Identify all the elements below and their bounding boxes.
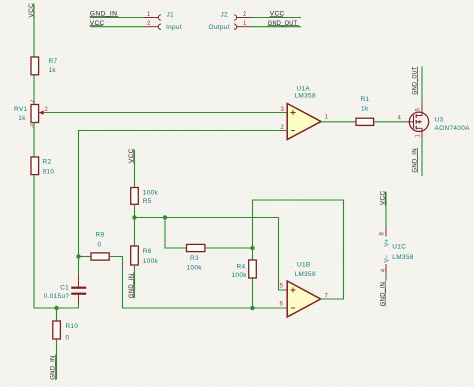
resistor R9 [91,232,109,261]
svg-text:J1: J1 [167,12,175,19]
junction R3/R4 node [250,246,254,250]
svg-text:R6: R6 [143,248,152,255]
wire U3 source down [421,138,423,176]
svg-text:RV1: RV1 [14,106,28,113]
net label VCC (R5 top) [128,148,135,163]
pin 4 stub [385,264,387,274]
svg-text:LM358: LM358 [295,271,316,278]
op-amp U1B [280,262,329,318]
svg-text:910: 910 [43,169,55,176]
svg-text:Input: Input [166,24,182,31]
svg-text:C1: C1 [60,285,69,292]
gate bar [413,115,415,129]
svg-text:1k: 1k [361,106,369,113]
wire J2 pin2 VCC [251,17,301,19]
power unit U1C [379,191,413,307]
resistor R4 [232,260,257,279]
pin 2 arc [158,24,161,29]
mosfet U3 AON7400A [406,106,470,139]
wire junction to U1B pin5 path [135,218,288,291]
resistor R3 [187,244,205,271]
pin 1 stub [237,26,251,28]
wire R2 down left rail to bottom [34,175,79,308]
wire J1 pin1 [90,17,144,19]
net label GND_IN (R6 bottom) [128,273,135,299]
svg-text:LM358: LM358 [392,254,413,261]
pin 1 arc [234,24,237,29]
junction R5/R6 node [132,215,136,219]
resistor R2 [31,157,54,176]
net label GND_IN (below R10) [50,355,57,381]
wire VCC rail top to R7 [33,4,35,58]
svg-text:R9: R9 [96,232,105,239]
connector J2 [209,11,302,32]
wire J1 pin2 [90,26,144,28]
svg-text:Output: Output [209,24,230,31]
wire VCC to R5 [134,150,136,188]
wire VCC to pin8 [385,192,387,228]
svg-text:U1C: U1C [392,244,406,251]
svg-text:100k: 100k [232,272,248,279]
resistor R7 [31,57,57,75]
wire U3 drain up [421,67,423,106]
svg-text:R5: R5 [143,198,152,205]
svg-text:R3: R3 [190,255,199,262]
svg-text:1k: 1k [18,115,26,122]
svg-text:100k: 100k [143,258,159,265]
svg-text:R7: R7 [49,58,58,65]
wire node to R9 [79,256,92,258]
wire RV1 wiper to U1A pin3 [44,112,288,114]
pin 2 arc [234,15,237,20]
resistor R10 [53,308,79,380]
op-amp U1A [281,86,329,140]
wire pin4 down [385,274,387,281]
svg-text:J2: J2 [221,12,229,19]
svg-text:R1: R1 [361,96,370,103]
connector J1 [90,11,182,32]
pin 1 arc [158,15,161,20]
wire R9 right to bottom rail [109,257,287,309]
body arrow [417,121,422,123]
wire U1A pin2 to node (long) [79,131,288,257]
drain link [416,106,422,116]
wire R7 to RV1 [33,75,35,105]
svg-text:LM358: LM358 [295,93,316,100]
wire J2 pin1 GND_OUT [251,26,301,28]
resistor R1 [356,96,374,125]
svg-text:0: 0 [98,242,102,249]
svg-text:U1B: U1B [297,262,311,269]
net label GND_OUT (drain) [412,67,419,95]
svg-text:0: 0 [66,335,70,342]
pin 2 stub [237,17,251,19]
wire U1B out feedback loop [253,200,344,308]
svg-text:R10: R10 [66,323,79,330]
minus mark pin2 [291,130,295,132]
pin 2 stub [144,26,158,28]
plus mark pin3 [291,110,296,115]
gate pin stub [406,121,414,123]
plus mark pin5 [291,288,296,293]
channel dashes [415,114,417,129]
potentiometer RV1 [14,98,49,130]
pin 8 stub [385,228,387,237]
source link [416,128,422,138]
wire R6 junction down [134,218,136,247]
net label GND_IN (source) [412,148,419,173]
svg-text:1k: 1k [49,67,57,74]
svg-text:100k: 100k [187,265,203,272]
resistor R5 [131,188,159,206]
pin 1 stub [144,17,158,19]
net label VCC (top-left rail) [28,3,35,18]
minus mark pin6 [291,307,295,309]
svg-text:0.015u?: 0.015u? [44,293,70,300]
svg-text:V−: V− [385,254,391,262]
wire R6 down to label [134,265,136,298]
wire R3 branch down [165,218,187,249]
wire R1 to U3 gate [374,121,406,123]
junction R10 top [54,306,58,310]
wire RV1 to R2 [33,123,35,158]
wire R5 to junction [134,204,136,217]
junction R9/C1/U1A-pin2 node [76,254,80,258]
svg-text:R2: R2 [43,158,52,165]
wire R3 to R4 column [205,247,253,249]
wire U1A out to R1 [321,121,356,123]
svg-text:100k: 100k [143,190,159,197]
svg-text:R4: R4 [237,263,246,270]
junction R3 branch [163,215,167,219]
svg-text:AON7400A: AON7400A [435,125,471,132]
svg-text:U1A: U1A [297,86,311,93]
svg-text:V+: V+ [385,238,391,246]
junction R4 bottom rail [250,306,254,310]
capacitor C1 [44,257,87,309]
resistor R6 [131,246,159,265]
svg-text:U3: U3 [435,117,444,124]
